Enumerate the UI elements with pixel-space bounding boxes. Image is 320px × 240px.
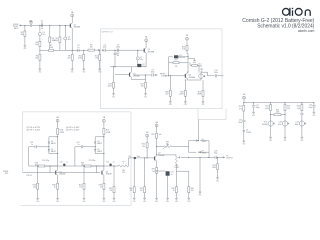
svg-text:470R: 470R	[106, 132, 111, 134]
svg-text:C15 470p: C15 470p	[88, 160, 95, 162]
svg-text:+: +	[39, 34, 40, 36]
svg-text:2N5088: 2N5088	[189, 77, 196, 79]
svg-text:GND: GND	[38, 72, 41, 74]
svg-text:2N5088: 2N5088	[59, 174, 65, 176]
svg-text:100k: 100k	[108, 86, 112, 88]
svg-text:1u: 1u	[78, 144, 80, 146]
svg-text:10u: 10u	[140, 59, 143, 61]
svg-text:GND: GND	[202, 104, 205, 106]
svg-text:D4: D4	[97, 141, 99, 143]
svg-text:C21: C21	[128, 156, 131, 158]
svg-text:C16: C16	[106, 162, 109, 164]
svg-text:1u: 1u	[77, 47, 79, 49]
svg-text:GND: GND	[300, 140, 303, 142]
svg-text:Q6 VF = 5.83V: Q6 VF = 5.83V	[66, 127, 80, 129]
svg-text:10k: 10k	[297, 108, 300, 110]
svg-text:GND: GND	[184, 104, 187, 106]
svg-text:GND: GND	[36, 201, 39, 203]
svg-text:C16: C16	[60, 162, 63, 164]
svg-text:D9: D9	[202, 151, 204, 153]
svg-text:Q6 VF = 5.83V: Q6 VF = 5.83V	[66, 130, 80, 132]
svg-text:GND: GND	[144, 96, 147, 98]
svg-text:GND: GND	[23, 48, 26, 50]
svg-text:10k: 10k	[33, 187, 36, 189]
svg-text:2k2: 2k2	[67, 58, 70, 60]
svg-text:GND: GND	[312, 115, 315, 117]
svg-text:1u: 1u	[66, 162, 68, 164]
svg-text:10u: 10u	[68, 39, 71, 41]
svg-text:4k7: 4k7	[166, 94, 169, 96]
svg-text:BUFFER OUT: BUFFER OUT	[102, 31, 114, 33]
svg-text:100k: 100k	[212, 167, 216, 169]
svg-text:100n: 100n	[103, 47, 107, 49]
svg-text:1u: 1u	[31, 144, 33, 146]
svg-text:100p: 100p	[308, 107, 312, 109]
svg-text:470k: 470k	[78, 58, 82, 60]
svg-text:A100k: A100k	[262, 123, 267, 126]
svg-text:GND: GND	[284, 140, 287, 142]
svg-text:47u: 47u	[42, 34, 45, 36]
svg-text:10k: 10k	[142, 146, 145, 148]
svg-text:10k: 10k	[35, 44, 38, 46]
svg-text:GND: GND	[83, 201, 86, 203]
svg-text:R29: R29	[151, 134, 154, 136]
svg-text:1N914: 1N914	[246, 132, 251, 134]
svg-text:10k: 10k	[182, 49, 185, 51]
svg-text:2N5088: 2N5088	[133, 76, 140, 78]
svg-text:1k: 1k	[173, 190, 175, 192]
svg-text:2N5088: 2N5088	[74, 27, 81, 29]
svg-text:GND: GND	[242, 144, 245, 146]
svg-text:Q5 VF = 4.25V: Q5 VF = 4.25V	[27, 127, 41, 129]
svg-text:10k: 10k	[35, 58, 38, 60]
svg-text:C15 470p: C15 470p	[42, 160, 49, 162]
svg-text:2N5088: 2N5088	[106, 174, 112, 176]
svg-text:GND: GND	[143, 201, 146, 203]
svg-text:2N5088: 2N5088	[147, 52, 154, 54]
svg-text:GND: GND	[82, 72, 85, 74]
svg-text:GND: GND	[269, 140, 272, 142]
svg-text:10k: 10k	[79, 187, 82, 189]
svg-text:10k: 10k	[109, 190, 112, 192]
svg-text:D3: D3	[51, 149, 53, 151]
svg-text:220k: 220k	[276, 112, 280, 114]
svg-text:1k: 1k	[41, 28, 43, 30]
svg-text:100R: 100R	[197, 94, 202, 96]
svg-text:GND: GND	[175, 201, 178, 203]
svg-text:100n: 100n	[116, 47, 120, 49]
svg-text:JACK: JACK	[14, 27, 19, 30]
svg-text:220R: 220R	[179, 94, 184, 96]
svg-text:100p: 100p	[256, 107, 260, 109]
svg-text:+: +	[65, 38, 66, 40]
svg-text:GND: GND	[133, 201, 136, 203]
svg-text:D8: D8	[202, 139, 204, 141]
svg-text:Q5 VF = 4.25V: Q5 VF = 4.25V	[27, 130, 41, 132]
svg-text:1k: 1k	[100, 187, 102, 189]
svg-text:GND: GND	[166, 201, 169, 203]
svg-text:1u: 1u	[41, 23, 43, 25]
svg-text:aionfx.com: aionfx.com	[298, 29, 315, 33]
svg-text:4k7: 4k7	[140, 190, 143, 192]
svg-text:100n: 100n	[214, 153, 218, 155]
svg-text:GND: GND	[56, 201, 59, 203]
svg-text:100k: 100k	[49, 47, 53, 49]
svg-text:GND: GND	[169, 104, 172, 106]
svg-text:GND: GND	[187, 201, 190, 203]
svg-text:10k: 10k	[141, 86, 144, 88]
svg-text:1u: 1u	[171, 174, 173, 176]
svg-text:OUTPUT: OUTPUT	[226, 158, 233, 160]
svg-text:GND: GND	[71, 72, 74, 74]
svg-text:100n: 100n	[29, 23, 33, 25]
svg-text:R11 1M: R11 1M	[27, 175, 33, 177]
svg-text:100n: 100n	[214, 72, 218, 74]
svg-text:GND: GND	[113, 201, 116, 203]
svg-text:1N914: 1N914	[202, 153, 207, 155]
svg-text:470R: 470R	[60, 132, 65, 134]
svg-text:D5: D5	[97, 149, 99, 151]
svg-text:R23: R23	[276, 110, 279, 112]
svg-text:100n: 100n	[137, 156, 141, 158]
svg-text:10k: 10k	[159, 134, 162, 136]
svg-text:GND: GND	[102, 201, 105, 203]
svg-text:470k: 470k	[54, 40, 58, 42]
svg-text:22k: 22k	[130, 190, 133, 192]
svg-text:+: +	[137, 58, 138, 60]
svg-text:C20: C20	[309, 105, 312, 107]
svg-text:47k: 47k	[239, 108, 242, 110]
svg-text:100n: 100n	[295, 124, 299, 126]
svg-text:22k: 22k	[287, 108, 290, 110]
svg-text:DS3: DS3	[162, 75, 165, 77]
svg-text:100k: 100k	[265, 108, 269, 110]
svg-text:1M: 1M	[21, 34, 24, 36]
svg-text:10k: 10k	[191, 190, 194, 192]
svg-text:47k: 47k	[175, 66, 178, 68]
svg-text:GND: GND	[199, 195, 202, 197]
svg-text:1N914: 1N914	[202, 141, 207, 143]
svg-text:10u 16V: 10u 16V	[179, 57, 186, 59]
svg-text:25k: 25k	[122, 172, 125, 174]
svg-text:1k: 1k	[54, 187, 56, 189]
svg-text:GND: GND	[98, 72, 101, 74]
svg-text:R17: R17	[174, 59, 177, 61]
svg-text:DS2: DS2	[5, 173, 8, 175]
svg-text:10k: 10k	[152, 171, 155, 173]
svg-text:100kC: 100kC	[174, 167, 180, 169]
svg-text:100p: 100p	[238, 122, 242, 124]
svg-text:1u: 1u	[113, 162, 115, 164]
svg-text:100n: 100n	[151, 72, 155, 74]
svg-text:D2: D2	[51, 141, 53, 143]
svg-text:GND: GND	[155, 201, 158, 203]
svg-text:10k: 10k	[90, 46, 93, 48]
svg-text:GND: GND	[252, 115, 255, 117]
svg-text:+: +	[172, 57, 173, 59]
svg-text:GND: GND	[216, 180, 219, 182]
svg-text:100n: 100n	[278, 124, 282, 126]
svg-text:GND: GND	[112, 96, 115, 98]
svg-text:25k: 25k	[166, 143, 169, 145]
